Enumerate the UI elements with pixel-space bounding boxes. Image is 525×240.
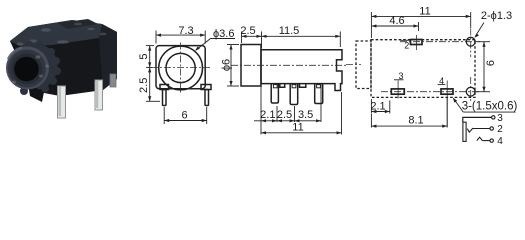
schematic pin 3 terminal: [492, 116, 495, 119]
front view left boss: [160, 85, 169, 90]
front view right pin: [205, 90, 209, 106]
side view pin 3: [315, 84, 323, 104]
svg-text:3: 3: [497, 113, 503, 124]
svg-text:3.5: 3.5: [298, 109, 313, 121]
top view dimension 11: [371, 12, 470, 38]
side view bottom dims 2.1 2.5 3.5: [254, 84, 321, 122]
schematic switch contact to pin 2: [467, 128, 473, 132]
side view dimension 11.5: [262, 32, 341, 48]
side view dimension phi6: [227, 45, 239, 87]
top view dimension 2.1: [371, 99, 389, 114]
photo body top face: [10, 20, 113, 46]
photo pin 2: [95, 80, 103, 110]
photo right face: [99, 24, 117, 90]
front view right boss: [201, 85, 211, 90]
svg-text:2.5: 2.5: [240, 25, 255, 37]
side view dimension 11: [261, 92, 342, 135]
photo of 3.5mm jack connector: [6, 19, 117, 118]
photo barrel rim highlight: [8, 48, 22, 60]
svg-text:2: 2: [497, 124, 503, 135]
photo bottom left leg: [28, 84, 44, 102]
svg-text:6: 6: [181, 109, 187, 121]
top view body dashed rect: [371, 40, 475, 98]
svg-text:ϕ6: ϕ6: [221, 59, 233, 71]
top view pad 4: [441, 89, 453, 94]
svg-text:11: 11: [419, 5, 430, 17]
side view pin 1: [271, 84, 278, 103]
side view pin 1 shoulder: [273, 85, 277, 88]
top view pad 2: [411, 40, 423, 45]
photo pin 3 stub right: [110, 74, 116, 87]
svg-text:2.5: 2.5: [138, 78, 150, 93]
side view barrel: [241, 45, 261, 87]
svg-text:4.6: 4.6: [389, 15, 404, 27]
side view dimension 2.5: [242, 32, 262, 49]
top view dimension 8.1: [371, 97, 447, 128]
front view dimensions 5 and 2.5: [146, 46, 160, 102]
photo barrel hole: [14, 57, 39, 82]
svg-text:6: 6: [485, 60, 497, 66]
front view inner circle: [166, 53, 195, 82]
photo barrel face ring: [6, 47, 49, 90]
photo top mottled highlights: [17, 23, 107, 46]
top view dimension 4.6: [371, 22, 418, 31]
schematic sleeve bar: [463, 122, 466, 141]
svg-text:2.1: 2.1: [260, 109, 275, 121]
front view label phi3.6: [196, 39, 235, 51]
photo gear flange behind barrel: [11, 41, 62, 96]
side view body outline: [261, 50, 342, 91]
front view dimension 6: [164, 107, 207, 124]
front view left pin: [163, 90, 167, 106]
top view hole circle top: [466, 37, 475, 46]
side view centerline: [231, 64, 348, 66]
front view centerlines: [151, 43, 211, 93]
side view pin 2 shoulder: [292, 85, 296, 88]
photo top raised block: [58, 19, 98, 29]
side view pin 3 shoulder: [317, 85, 321, 88]
front view dimension 7.3: [156, 31, 205, 44]
schematic switch contact to pin 4: [477, 137, 483, 140]
svg-text:5: 5: [138, 53, 150, 59]
top view dimension 6: [476, 42, 490, 92]
top view centerlines: [346, 29, 480, 102]
svg-text:11: 11: [292, 121, 303, 133]
photo pin 1: [58, 86, 66, 118]
svg-text:ϕ3.6: ϕ3.6: [213, 28, 234, 40]
side view bottom bump B: [300, 84, 306, 88]
side view pin 2: [290, 84, 298, 105]
schematic pin 4 terminal: [490, 139, 493, 142]
photo barrel speckles: [12, 55, 49, 83]
front view outer circle: [159, 46, 203, 90]
svg-text:2: 2: [404, 40, 409, 50]
schematic pin 2 terminal: [490, 127, 493, 130]
svg-text:11.5: 11.5: [279, 25, 300, 37]
svg-text:3-(1.5x0.6): 3-(1.5x0.6): [462, 101, 518, 113]
svg-text:8.1: 8.1: [408, 114, 423, 126]
svg-text:4: 4: [497, 136, 503, 147]
front view body square: [156, 46, 205, 89]
top view barrel stub dashed: [356, 41, 371, 89]
svg-text:7.3: 7.3: [178, 25, 193, 37]
top view hole circle bottom: [466, 87, 475, 96]
schematic wire to pin 3: [463, 117, 492, 122]
svg-text:2-ϕ1.3: 2-ϕ1.3: [481, 10, 512, 22]
svg-text:2.1: 2.1: [370, 101, 385, 113]
photo body silhouette: [10, 20, 117, 96]
side view bottom bump A: [280, 84, 285, 88]
svg-text:2.5: 2.5: [277, 109, 292, 121]
top view pad 3: [391, 89, 404, 94]
